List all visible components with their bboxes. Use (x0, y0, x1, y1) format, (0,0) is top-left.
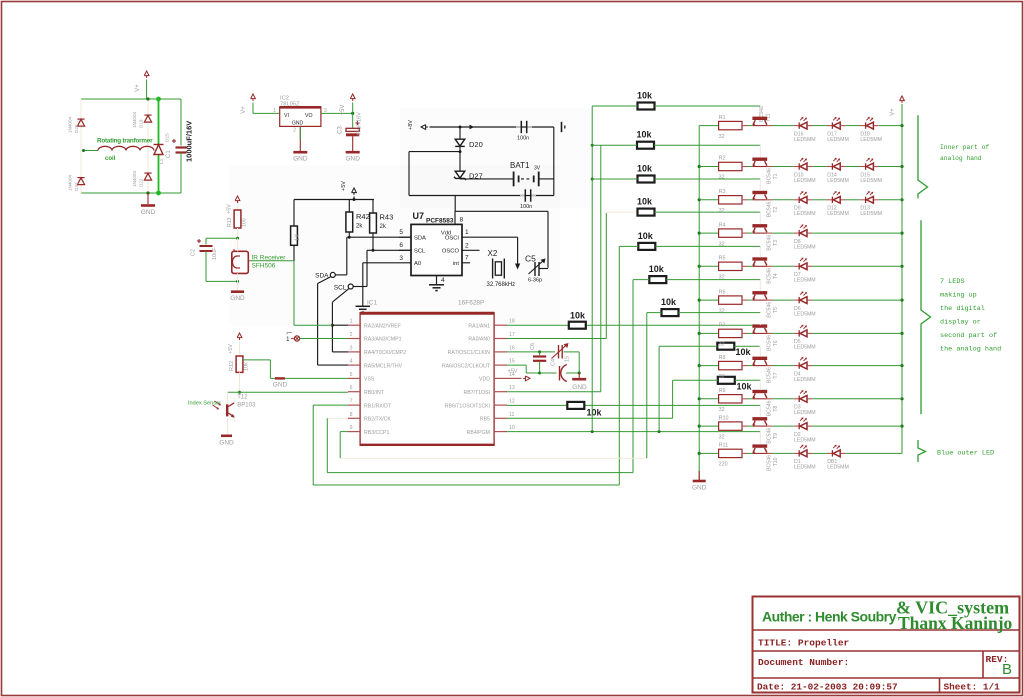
svg-text:GND: GND (572, 384, 587, 391)
inductor L1 rotating transformer coil (84, 146, 166, 164)
junction node (left rail row R10) (698, 425, 701, 428)
svg-text:LED5MM: LED5MM (794, 465, 816, 471)
wire (460, 178, 514, 180)
svg-text:1: 1 (350, 319, 353, 325)
resistor 10k (pin12) (567, 402, 602, 418)
wire base drop T4 (759, 246, 761, 257)
LED D8 LED5MM (794, 224, 816, 250)
wire (pale) middle branch (147, 99, 149, 193)
svg-text:3: 3 (350, 345, 353, 351)
svg-text:RB2/TX/CK: RB2/TX/CK (364, 417, 391, 423)
wire pin 17 riser (507, 212, 637, 338)
svg-text:Index Sensor: Index Sensor (188, 401, 221, 407)
wire (879, 199, 902, 201)
svg-text:5: 5 (399, 229, 403, 236)
svg-text:OSCI: OSCI (445, 235, 460, 241)
junction node (left rail row R8) (698, 364, 701, 367)
svg-text:LED5MM: LED5MM (860, 137, 882, 143)
svg-text:10k: 10k (661, 297, 677, 307)
svg-text:coil: coil (105, 156, 116, 162)
IR receiver SFH506 (232, 238, 249, 281)
svg-text:GND: GND (141, 209, 156, 216)
title block REV B (986, 654, 1013, 678)
supply symbol V+ (LED rail) (890, 96, 904, 116)
svg-text:D22: D22 (139, 178, 144, 187)
wire (742, 232, 753, 234)
svg-text:GND: GND (273, 382, 288, 389)
LED D10 LED5MM (794, 158, 816, 184)
svg-text:C6: C6 (530, 343, 536, 350)
wire (845, 125, 860, 127)
wire VSS ground route (243, 360, 349, 379)
svg-text:R1: R1 (719, 115, 726, 121)
svg-text:T2: T2 (773, 207, 779, 213)
svg-text:LED5MM: LED5MM (794, 311, 816, 317)
wire (767, 425, 794, 427)
LED D6 LED5MM (794, 291, 816, 317)
svg-text:15: 15 (509, 359, 515, 365)
wire base drop T6 (759, 323, 761, 326)
svg-text:RA6/OSC2/CLKOUT: RA6/OSC2/CLKOUT (442, 363, 491, 369)
svg-text:C3: C3 (338, 126, 344, 134)
svg-text:LED5MM: LED5MM (827, 465, 849, 471)
wire base drop T9 (759, 405, 761, 417)
svg-text:RA1/AN1: RA1/AN1 (468, 323, 490, 329)
svg-text:Thanx Kaninjo: Thanx Kaninjo (898, 613, 1013, 633)
svg-text:RA5/MCLR/THV: RA5/MCLR/THV (364, 363, 403, 369)
svg-text:RB6/T1OSO/T1CKI: RB6/T1OSO/T1CKI (445, 403, 490, 409)
svg-text:IC1: IC1 (367, 300, 378, 307)
resistor 10k (row 8 feed) (659, 343, 760, 432)
ground bar (battery top net) (562, 122, 565, 132)
resistor R6 32 (719, 289, 742, 314)
resistor R9 32 (719, 388, 742, 413)
junction node (459, 150, 462, 153)
wire (767, 452, 794, 454)
resistor 10k (row 9 feed) (673, 377, 761, 392)
svg-text:R6: R6 (719, 289, 726, 295)
title block VIC_system text (896, 598, 1013, 634)
svg-text:Auther : Henk Soubry: Auther : Henk Soubry (762, 609, 897, 625)
wire (742, 425, 753, 427)
ground GND (IC2) (293, 126, 308, 162)
brace: 7 LEDs digital display (921, 220, 931, 414)
ground GND (resonator) (572, 373, 587, 391)
wire row R6 (699, 299, 718, 301)
capacitor C3 47uF/16V (338, 112, 363, 151)
pin 4 ground stub and GND (U7) (429, 276, 444, 291)
RTC U7 PCF8583 (399, 211, 469, 284)
label Index Sensor (188, 401, 221, 407)
svg-text:+5V: +5V (340, 105, 346, 116)
wire row R9 (699, 398, 718, 400)
junction node (348, 236, 351, 239)
wire IR receiver output (248, 261, 332, 326)
svg-text:R11: R11 (719, 443, 729, 449)
LED D7 LED5MM (794, 258, 816, 284)
LED D12 LED5MM (827, 191, 849, 217)
svg-text:1N4004: 1N4004 (68, 174, 73, 191)
svg-text:8: 8 (460, 217, 464, 224)
svg-text:R8: R8 (719, 355, 726, 361)
svg-text:5: 5 (350, 372, 353, 378)
svg-text:32: 32 (719, 342, 725, 348)
svg-text:GND: GND (219, 439, 234, 446)
svg-text:1000uF/16V: 1000uF/16V (185, 121, 194, 162)
svg-text:the analog hand: the analog hand (940, 346, 1001, 354)
junction node (538, 372, 541, 375)
wire (Vdd net to U7) (455, 196, 548, 268)
svg-text:RA2/AN2/VREF: RA2/AN2/VREF (364, 323, 401, 329)
svg-text:1: 1 (273, 108, 276, 114)
svg-text:IR Receiver: IR Receiver (252, 255, 287, 262)
wire SDA net to U7 (347, 237, 411, 275)
junction node (538, 350, 541, 353)
wire (879, 125, 902, 127)
pin 2 OSCO stub (462, 249, 480, 251)
svg-text:RA7/OSC1/CLKIN: RA7/OSC1/CLKIN (448, 350, 491, 356)
wire SCL net to U7 (367, 250, 411, 286)
wire base drop T2 (759, 179, 761, 191)
wire base drop T1 (759, 145, 761, 157)
svg-text:A0: A0 (414, 261, 421, 267)
wire base drop T3 (759, 212, 761, 224)
junction node (right rail row R4) (900, 232, 903, 235)
zener diode D15 (154, 133, 171, 155)
svg-text:32: 32 (719, 241, 725, 247)
wire row R3 (699, 199, 718, 201)
brace: blue outer LED (918, 440, 926, 462)
junction node (bright) (156, 97, 161, 196)
svg-text:11: 11 (509, 412, 514, 418)
resistor R3 32 (719, 189, 742, 214)
svg-text:10k: 10k (587, 408, 603, 418)
svg-text:V+: V+ (241, 106, 247, 114)
svg-text:B: B (1002, 661, 1012, 678)
svg-text:10k: 10k (570, 311, 586, 321)
brace: inner part of analog hand (918, 115, 928, 198)
svg-text:78L05Z: 78L05Z (280, 102, 300, 108)
svg-text:BC546: BC546 (767, 302, 773, 318)
wire row R10 (699, 425, 718, 427)
svg-text:R42: R42 (356, 212, 370, 221)
svg-text:100n: 100n (517, 136, 529, 142)
supply symbol +5V (pull-ups) (341, 181, 356, 200)
transistor T8 BC546 (752, 390, 779, 417)
svg-text:LED5MM: LED5MM (794, 345, 816, 351)
svg-text:32.768kHz: 32.768kHz (487, 282, 516, 288)
svg-text:BC546: BC546 (767, 201, 773, 217)
pin 7 int stub (462, 262, 470, 264)
svg-text:17: 17 (509, 332, 515, 338)
wire row R7 (699, 332, 718, 334)
svg-text:15: 15 (565, 356, 571, 362)
svg-text:T10: T10 (773, 457, 779, 466)
svg-text:BP103: BP103 (237, 403, 256, 409)
junction node (left rail row R3) (698, 198, 701, 201)
ground GND (IR receiver) (230, 281, 245, 302)
zener diode D27 (454, 152, 483, 181)
svg-text:3: 3 (399, 255, 403, 262)
wire (pale) left branch (80, 99, 82, 193)
title block sheet (944, 682, 1001, 693)
supply symbol +5V (R13) (227, 196, 240, 214)
junction node (right rail row R7) (900, 332, 903, 335)
supply symbol +5V (VDD pin 14) (507, 369, 530, 381)
svg-text:T4: T4 (773, 273, 779, 279)
svg-text:RB5: RB5 (480, 417, 490, 423)
resistor 10k (pin18) (569, 311, 586, 329)
LED D15 LED5MM (860, 158, 882, 184)
svg-text:L1: L1 (159, 158, 165, 164)
svg-text:T8: T8 (773, 406, 779, 412)
wire row R11 (699, 452, 718, 454)
wire (767, 265, 794, 267)
svg-text:16: 16 (509, 345, 515, 351)
svg-text:2k: 2k (380, 224, 387, 230)
wire base drop T10 (759, 432, 761, 445)
svg-text:18: 18 (509, 319, 515, 325)
junction node (591, 144, 594, 181)
svg-text:GND: GND (292, 121, 304, 127)
resistor R43 2k (370, 200, 394, 251)
svg-text:TITLE: Propeller: TITLE: Propeller (758, 638, 850, 649)
resistor R12 10k (229, 342, 250, 393)
svg-text:VO: VO (305, 113, 313, 119)
svg-text:9: 9 (350, 425, 353, 431)
ground GND (left rail) (692, 471, 707, 492)
svg-text:Document Number:: Document Number: (758, 657, 849, 668)
svg-text:Inner part of: Inner part of (940, 144, 989, 151)
wire (742, 452, 753, 454)
title block frame (753, 597, 1020, 693)
svg-text:R12: R12 (229, 361, 235, 371)
svg-text:100n: 100n (520, 204, 532, 210)
svg-text:BC546: BC546 (767, 268, 773, 284)
junction node (82, 149, 85, 152)
svg-text:47uF/16V: 47uF/16V (357, 112, 363, 136)
svg-text:D26: D26 (74, 124, 79, 133)
svg-text:+5V: +5V (228, 344, 234, 354)
wire (742, 332, 753, 334)
wire pin 8 route to 10k ladder (327, 280, 633, 473)
svg-text:the digital: the digital (940, 305, 985, 313)
resistor R1 32 (719, 115, 742, 140)
wire (742, 365, 753, 367)
label BC546 T11 (top) (759, 106, 772, 122)
svg-text:T3: T3 (773, 240, 779, 246)
svg-text:LED5MM: LED5MM (827, 178, 849, 184)
svg-text:13: 13 (509, 385, 515, 391)
wire (767, 299, 794, 301)
junction node (353, 198, 356, 201)
svg-text:RB7/T1OSI: RB7/T1OSI (463, 390, 490, 396)
wire (812, 199, 827, 201)
svg-text:32: 32 (719, 434, 725, 440)
svg-text:32: 32 (719, 407, 725, 413)
ceramic resonator C6 (530, 343, 546, 373)
junction node (right rail row R5) (900, 265, 903, 268)
wire (879, 166, 902, 168)
capacitor 100n (top) (516, 121, 532, 142)
svg-text:10uF: 10uF (212, 247, 218, 260)
svg-text:32: 32 (719, 175, 725, 181)
resistor 10k (ladder 2) (591, 130, 760, 149)
wire (812, 332, 902, 334)
svg-text:7 LEDS: 7 LEDS (940, 278, 964, 286)
transistor T9 BC546 (752, 417, 779, 444)
resistor 10k (ladder 4) (637, 197, 760, 216)
resistor 10k (ladder 3) (591, 164, 760, 183)
svg-text:+5V: +5V (227, 204, 233, 214)
svg-text:D20: D20 (469, 140, 483, 149)
svg-text:LED5MM: LED5MM (794, 437, 816, 443)
wire SCL to IC1 pins 1,3 (332, 289, 348, 352)
wire base drop T8 (759, 380, 761, 390)
wire (812, 232, 902, 234)
wire (742, 299, 753, 301)
label Blue outer LED (937, 450, 994, 458)
svg-text:7: 7 (465, 255, 469, 262)
wire (812, 299, 902, 301)
svg-text:+8V: +8V (408, 120, 414, 130)
svg-text:7: 7 (350, 399, 353, 405)
svg-text:1K: 1K (295, 234, 301, 241)
junction node (left rail row R9) (698, 397, 701, 400)
svg-text:RA3/AN3/CMP1: RA3/AN3/CMP1 (364, 337, 402, 343)
microcontroller IC1 16F628P (348, 300, 515, 446)
junction node (right rail row R2) (900, 165, 903, 168)
resistor R4 32 (719, 222, 742, 247)
svg-text:4: 4 (441, 277, 445, 284)
svg-text:Date: 21-02-2003 20:09:57: Date: 21-02-2003 20:09:57 (757, 682, 898, 693)
wire SDA to IC1 pin 4 (318, 277, 348, 366)
ground GND (C3) (345, 152, 360, 163)
resistor 10k (ladder 5) (619, 231, 760, 250)
wire base drop T5 (759, 280, 761, 292)
wire (81, 98, 181, 100)
svg-text:2: 2 (293, 128, 296, 134)
wire row R5 (699, 265, 718, 267)
junction node (236, 237, 239, 240)
riser wire (rows 1-3 feed) (591, 106, 593, 432)
ground GND (A0) (356, 306, 371, 312)
capacitor C2 10uF (191, 238, 219, 281)
svg-text:R9: R9 (719, 388, 726, 394)
svg-text:OSCO: OSCO (442, 248, 460, 254)
svg-text:SCL: SCL (414, 248, 426, 254)
svg-text:second part of: second part of (940, 332, 997, 340)
svg-text:2k: 2k (356, 224, 363, 230)
diode D19 (132, 111, 152, 128)
svg-text:X2: X2 (488, 249, 498, 258)
wire row R8 (699, 365, 718, 367)
svg-text:+5V: +5V (341, 181, 347, 191)
wire pin 15 to resonator (507, 365, 540, 373)
wire (409, 152, 460, 196)
wire (812, 425, 902, 427)
junction node (left rail row R5) (698, 265, 701, 268)
svg-text:+5V: +5V (508, 369, 518, 375)
svg-text:32: 32 (719, 275, 725, 281)
junction node (right rail row R6) (900, 299, 903, 302)
svg-text:32: 32 (719, 374, 725, 380)
wire (812, 365, 902, 367)
crystal X2 32.768kHz (487, 249, 516, 288)
LED DB1 LED5MM (827, 445, 849, 471)
wire base drop T7 (759, 346, 761, 356)
left rail wire (rows to GND) (698, 126, 700, 480)
svg-text:BAT1: BAT1 (510, 161, 530, 170)
wire base drop T11 (759, 106, 761, 117)
svg-text:10k: 10k (244, 362, 250, 371)
svg-text:LED5MM: LED5MM (794, 211, 816, 217)
LED D9 LED5MM (794, 191, 816, 217)
svg-text:1: 1 (465, 229, 469, 236)
junction node (left rail row R6) (698, 299, 701, 302)
svg-text:LED5MM: LED5MM (794, 278, 816, 284)
svg-text:BC546: BC546 (767, 335, 773, 351)
svg-text:RB4/PGM: RB4/PGM (467, 430, 490, 436)
battery BAT1 3V (510, 161, 554, 186)
wire (767, 166, 794, 168)
svg-text:R3: R3 (719, 189, 726, 195)
junction node (right rail row R10) (900, 425, 903, 428)
svg-text:LED5MM: LED5MM (794, 137, 816, 143)
right rail wire V+ (901, 104, 903, 453)
svg-text:LED5MM: LED5MM (794, 178, 816, 184)
svg-text:10k: 10k (637, 164, 653, 174)
trimmer capacitor C5 6-36p (525, 254, 548, 284)
wire (742, 398, 753, 400)
resistor R7 32 (719, 323, 742, 348)
junction node (left rail row R7) (698, 332, 701, 335)
svg-text:100: 100 (242, 218, 248, 227)
wire row R4 (699, 232, 718, 234)
svg-text:C1: C1 (166, 150, 172, 158)
junction node (right rail row R8) (900, 364, 903, 367)
wire index sensor to RB0 (228, 391, 348, 393)
svg-text:1N4004: 1N4004 (132, 111, 137, 128)
svg-text:2: 2 (465, 242, 469, 249)
svg-text:V+: V+ (135, 84, 141, 92)
svg-text:4: 4 (350, 359, 353, 365)
junction node (right rail row R9) (900, 397, 903, 400)
label IR Receiver SFH506 (252, 255, 287, 270)
svg-text:Blue outer LED: Blue outer LED (937, 450, 994, 458)
wire (845, 199, 860, 201)
svg-text:U7: U7 (413, 211, 425, 221)
wire (409, 195, 554, 197)
junction node (left rail row R11) (698, 452, 701, 455)
capacitor C7 15p (540, 356, 580, 382)
svg-text:Rotating tranformer: Rotating tranformer (97, 138, 153, 145)
svg-text:T5: T5 (773, 307, 779, 313)
svg-text:BC546: BC546 (767, 455, 773, 471)
pin 1 OSCI wire with arrow end (462, 237, 520, 269)
supply symbol V+ (transformer block) (135, 71, 149, 92)
svg-text:VDD: VDD (479, 377, 490, 383)
wire (767, 232, 794, 234)
svg-text:analog hand: analog hand (940, 155, 982, 162)
wire (845, 166, 860, 168)
wire (742, 166, 753, 168)
svg-text:GND: GND (230, 295, 245, 302)
transistor T7 BC546 (752, 357, 779, 384)
wire pin 12 with resistor 10k (507, 404, 760, 406)
junction node (372, 249, 375, 252)
label Rotating tranformer (97, 138, 153, 145)
